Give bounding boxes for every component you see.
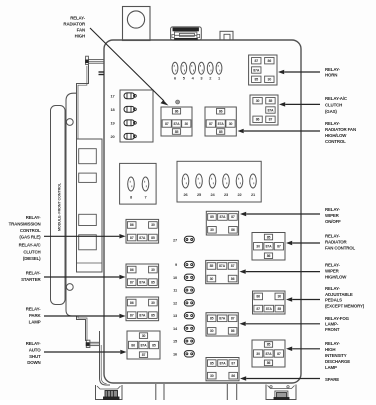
relay wiper high/low	[206, 260, 239, 283]
svg-text:85: 85	[278, 307, 282, 311]
relay a/c clutch gas	[250, 95, 278, 125]
svg-text:SPARE: SPARE	[325, 377, 339, 382]
svg-text:85: 85	[210, 361, 214, 365]
svg-text:RELAY-: RELAY-	[325, 67, 340, 72]
arrow to park lamp relay	[44, 314, 126, 319]
svg-text:85: 85	[210, 215, 214, 219]
relay radiator fan control	[252, 233, 285, 261]
top connector	[171, 27, 202, 40]
svg-text:85: 85	[151, 280, 155, 284]
svg-text:85: 85	[269, 99, 273, 103]
svg-text:87A: 87A	[219, 317, 226, 321]
svg-text:86: 86	[267, 254, 271, 258]
svg-text:HIGH/LOW: HIGH/LOW	[325, 275, 347, 280]
label relay park lamp	[26, 307, 42, 325]
svg-text:87A: 87A	[220, 361, 227, 365]
svg-text:RELAY-A/C: RELAY-A/C	[19, 243, 42, 248]
relay wiper on/off	[206, 211, 238, 235]
svg-text:87A: 87A	[266, 352, 273, 356]
svg-text:RELAY-: RELAY-	[325, 121, 340, 126]
svg-text:RELAY-: RELAY-	[325, 286, 340, 291]
relay radiator fan high/low control	[205, 107, 236, 136]
svg-text:17: 17	[110, 93, 114, 98]
svg-text:87A: 87A	[141, 343, 148, 347]
svg-text:30: 30	[210, 277, 214, 281]
relay spare	[206, 358, 239, 381]
svg-text:RELAY-: RELAY-	[70, 16, 85, 21]
svg-text:87: 87	[165, 122, 169, 126]
svg-text:PEDALS: PEDALS	[325, 298, 342, 303]
svg-text:(GAS): (GAS)	[325, 109, 337, 114]
left housing screw hole lower	[66, 284, 73, 291]
svg-text:7: 7	[144, 195, 146, 200]
svg-text:86: 86	[256, 118, 260, 122]
svg-text:ON/OFF: ON/OFF	[325, 219, 341, 224]
svg-text:TRANSMISSION: TRANSMISSION	[9, 221, 41, 226]
svg-text:27: 27	[173, 237, 177, 242]
label relay radiator fan high	[63, 16, 86, 39]
svg-text:86: 86	[219, 109, 223, 113]
relay radiator fan high	[161, 107, 192, 136]
svg-text:87: 87	[231, 317, 235, 321]
svg-text:(DIESEL): (DIESEL)	[23, 256, 41, 261]
svg-text:86: 86	[268, 59, 272, 63]
svg-text:LAMP-: LAMP-	[325, 322, 339, 327]
svg-text:DISCHARGE: DISCHARGE	[325, 359, 350, 364]
svg-text:FAN: FAN	[77, 28, 85, 33]
arrow to fog lamp relay	[240, 322, 321, 327]
svg-text:86: 86	[231, 277, 235, 281]
arrow to HID lamp relay	[286, 347, 320, 352]
svg-text:RELAY-: RELAY-	[325, 234, 340, 239]
svg-text:87A: 87A	[253, 68, 260, 72]
svg-text:HORN: HORN	[325, 73, 337, 78]
svg-text:CONTROL: CONTROL	[325, 139, 346, 144]
svg-text:85: 85	[254, 78, 258, 82]
svg-text:30: 30	[268, 78, 272, 82]
relay horn	[249, 55, 277, 85]
svg-text:30: 30	[151, 223, 155, 227]
fuse box 8-7	[120, 163, 157, 204]
svg-text:30: 30	[151, 301, 155, 305]
svg-text:87: 87	[130, 280, 134, 284]
svg-text:86: 86	[231, 329, 235, 333]
fuses 9-16	[173, 261, 194, 357]
svg-text:30: 30	[210, 228, 214, 232]
svg-text:87A: 87A	[218, 122, 225, 126]
svg-text:LAMP: LAMP	[29, 320, 41, 325]
svg-text:AUTO: AUTO	[29, 347, 41, 352]
svg-text:85: 85	[210, 264, 214, 268]
arrow to auto shut down relay	[44, 350, 127, 355]
arrow to spare relay	[240, 376, 320, 381]
left housing screw hole upper	[66, 119, 73, 126]
svg-text:10: 10	[173, 275, 177, 280]
module front control vertical text	[58, 182, 62, 231]
svg-text:87: 87	[130, 313, 134, 317]
PDC main box outline	[104, 40, 301, 383]
arrow to radiator fan high relay (diagonal)	[90, 28, 169, 106]
label relay wiper high/low	[325, 263, 347, 280]
relay adjustable pedals	[253, 291, 286, 314]
svg-text:86: 86	[175, 109, 179, 113]
svg-text:87: 87	[231, 215, 235, 219]
svg-text:86: 86	[231, 374, 235, 378]
svg-text:87A: 87A	[267, 108, 274, 112]
bottom legs right pair	[227, 384, 236, 400]
svg-text:(GAS RLE): (GAS RLE)	[19, 234, 41, 239]
svg-text:SHUT: SHUT	[29, 354, 41, 359]
svg-text:30: 30	[256, 245, 260, 249]
svg-text:87A: 87A	[266, 245, 273, 249]
label relay a/c clutch diesel	[19, 243, 42, 262]
arrow to horn relay	[278, 70, 320, 75]
arrow to starter relay	[44, 275, 126, 280]
fuse box 17-20	[110, 90, 153, 142]
svg-text:RELAY-: RELAY-	[325, 207, 340, 212]
label relay wiper on/off	[325, 207, 341, 224]
svg-text:87A: 87A	[266, 307, 273, 311]
left housing middle layer	[66, 93, 77, 316]
svg-text:30: 30	[210, 374, 214, 378]
svg-text:87: 87	[231, 361, 235, 365]
svg-text:CLUTCH: CLUTCH	[325, 103, 342, 108]
svg-text:WIPER: WIPER	[325, 213, 340, 218]
svg-text:FAN CONTROL: FAN CONTROL	[325, 246, 356, 251]
relay starter	[126, 264, 159, 288]
label relay high intensity discharge lamp	[325, 341, 350, 370]
arrow to radiator fan high/low control relay	[238, 129, 321, 134]
arrow to adjustable pedals relay	[286, 297, 320, 302]
label relay radiator fan control	[325, 234, 356, 251]
svg-text:86: 86	[130, 223, 134, 227]
svg-text:ADJUSTABLE: ADJUSTABLE	[325, 292, 353, 297]
svg-text:RADIATOR: RADIATOR	[325, 240, 348, 245]
svg-text:RELAY-: RELAY-	[26, 307, 41, 312]
svg-text:85: 85	[210, 317, 214, 321]
svg-text:30: 30	[184, 122, 188, 126]
svg-text:30: 30	[229, 122, 233, 126]
svg-text:87: 87	[254, 59, 258, 63]
svg-text:FRONT: FRONT	[325, 327, 340, 332]
svg-text:86: 86	[267, 361, 271, 365]
svg-text:30: 30	[278, 295, 282, 299]
svg-text:STARTER: STARTER	[21, 277, 41, 282]
svg-text:RELAY-FOG: RELAY-FOG	[325, 316, 350, 321]
top small square connector	[220, 31, 233, 40]
svg-text:RELAY-: RELAY-	[325, 263, 340, 268]
svg-text:85: 85	[267, 343, 271, 347]
label relay fog lamp front	[325, 316, 350, 332]
svg-text:PARK: PARK	[29, 313, 41, 318]
svg-text:87A: 87A	[219, 264, 226, 268]
svg-text:87: 87	[142, 353, 146, 357]
lower housing step and T-bracket	[77, 316, 111, 385]
svg-text:87A: 87A	[139, 280, 146, 284]
label relay adjustable pedals	[325, 286, 365, 308]
svg-text:INTENSITY: INTENSITY	[325, 353, 347, 358]
arrow to radiator fan control relay	[286, 241, 320, 246]
svg-text:RELAY-: RELAY-	[26, 271, 41, 276]
svg-text:87A: 87A	[139, 236, 146, 240]
svg-text:RADIATOR: RADIATOR	[63, 22, 86, 27]
label relay horn	[325, 67, 340, 78]
svg-text:30: 30	[256, 352, 260, 356]
svg-text:87A: 87A	[219, 215, 226, 219]
relay fog lamp front	[206, 313, 238, 336]
svg-text:HIGH: HIGH	[75, 34, 85, 39]
svg-text:CONTROL: CONTROL	[20, 228, 41, 233]
svg-text:(EXCEPT MEMORY): (EXCEPT MEMORY)	[325, 303, 365, 308]
svg-text:HIGH: HIGH	[325, 347, 335, 352]
svg-text:86: 86	[130, 301, 134, 305]
svg-text:85: 85	[152, 343, 156, 347]
svg-text:HIGH/LOW: HIGH/LOW	[325, 133, 347, 138]
svg-text:20: 20	[110, 134, 114, 139]
arrow to a/c clutch gas relay	[279, 102, 320, 107]
svg-text:87: 87	[269, 118, 273, 122]
svg-text:MODULE- FRONT CONTROL: MODULE- FRONT CONTROL	[58, 182, 62, 231]
svg-text:RELAY-: RELAY-	[26, 215, 41, 220]
svg-text:86: 86	[231, 228, 235, 232]
top mounting tab with hole	[123, 7, 151, 41]
label relay transmission control gas rle	[9, 215, 42, 239]
svg-text:87: 87	[130, 236, 134, 240]
bottom left foot	[96, 385, 123, 400]
svg-text:RELAY-: RELAY-	[325, 341, 340, 346]
svg-text:30: 30	[142, 334, 146, 338]
label spare	[325, 377, 339, 382]
svg-text:87A: 87A	[139, 313, 146, 317]
bottom right foot	[266, 385, 296, 401]
upper T-bracket on box edge	[85, 56, 104, 74]
svg-text:85: 85	[175, 130, 179, 134]
svg-text:30: 30	[210, 329, 214, 333]
svg-text:86: 86	[256, 295, 260, 299]
left housing outer module box	[51, 106, 66, 305]
svg-text:DOWN: DOWN	[27, 360, 40, 365]
left housing connector body with slots	[77, 139, 103, 272]
svg-text:WIPER: WIPER	[325, 269, 340, 274]
svg-text:85: 85	[267, 235, 271, 239]
fuse row 6-1	[172, 62, 222, 80]
svg-text:85: 85	[151, 236, 155, 240]
left housing stepped profile	[77, 65, 89, 140]
svg-text:30: 30	[151, 268, 155, 272]
arrow to wiper high/low relay	[240, 269, 321, 274]
relay auto shut down	[127, 331, 160, 359]
arrow to wiper on/off relay	[240, 212, 320, 217]
relay high intensity discharge lamp	[252, 340, 285, 367]
bottom legs left pair	[156, 384, 164, 400]
svg-text:87: 87	[256, 307, 260, 311]
svg-text:87: 87	[277, 245, 281, 249]
svg-text:LAMP: LAMP	[325, 365, 337, 370]
relay transmission control / a/c clutch diesel	[126, 219, 159, 243]
svg-text:85: 85	[151, 313, 155, 317]
svg-text:87: 87	[277, 352, 281, 356]
relay park lamp	[126, 297, 159, 321]
svg-text:87: 87	[231, 264, 235, 268]
svg-text:87: 87	[209, 122, 213, 126]
label relay auto shut down	[26, 341, 42, 365]
svg-text:RELAY-: RELAY-	[26, 341, 41, 346]
label relay a/c clutch gas	[325, 96, 348, 114]
svg-text:85: 85	[219, 130, 223, 134]
svg-text:86: 86	[131, 343, 135, 347]
svg-text:87A: 87A	[174, 122, 181, 126]
label relay starter	[21, 271, 41, 283]
arrow to transmission control relay	[44, 234, 126, 239]
label relay radiator fan high/low control	[325, 121, 356, 144]
svg-text:RELAY-A/C: RELAY-A/C	[325, 96, 348, 101]
svg-text:86: 86	[130, 268, 134, 272]
screw symbol	[176, 100, 180, 104]
fuse 27	[173, 236, 194, 242]
svg-text:30: 30	[256, 99, 260, 103]
svg-text:CLUTCH: CLUTCH	[23, 249, 40, 254]
svg-text:RADIATOR FAN: RADIATOR FAN	[325, 127, 356, 132]
fuse box 26-21	[177, 161, 261, 202]
